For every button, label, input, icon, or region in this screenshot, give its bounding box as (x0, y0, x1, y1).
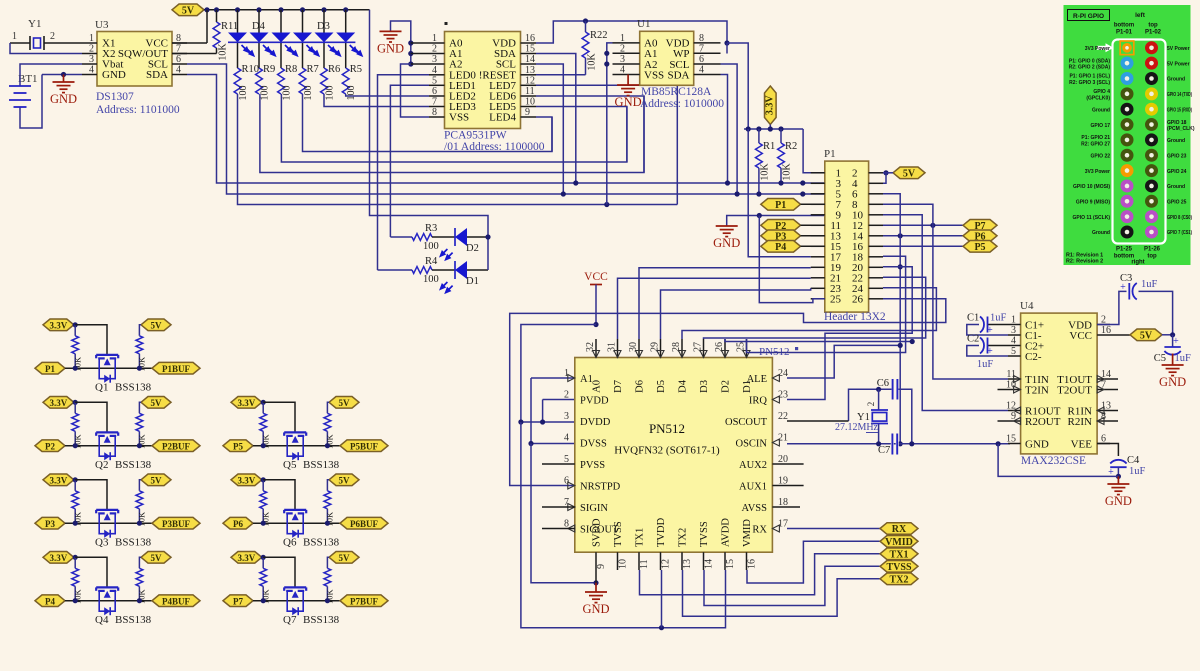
svg-text:BSS138: BSS138 (303, 537, 340, 549)
LED group D4 (3x blue) and D3 (3x blue) (228, 7, 362, 68)
resistor Q7 drain pull-up 10K (324, 557, 335, 604)
svg-text:GPIO 14 (TXD): GPIO 14 (TXD) (1167, 92, 1192, 98)
gpio row 3 (1069, 72, 1185, 86)
net tag P4 (header pin 15) (761, 241, 825, 253)
svg-text:AUX2: AUX2 (739, 460, 767, 471)
IC PCA9531PW LED dimmer (411, 22, 545, 153)
wire I2C SDA bus (U3 pin4 to header pin3) (187, 75, 825, 184)
svg-text:8: 8 (699, 33, 704, 44)
svg-text:1: 1 (89, 33, 94, 44)
wire D1/D2 anode rail to 5V (370, 10, 491, 270)
svg-text:GPIO 15 (RXD): GPIO 15 (RXD) (1167, 107, 1192, 113)
svg-text:26: 26 (852, 293, 864, 305)
svg-text:2: 2 (866, 402, 876, 407)
svg-text:1uF: 1uF (1129, 466, 1146, 477)
svg-text:P5: P5 (233, 441, 243, 451)
gpio row 11 (1076, 195, 1187, 208)
net tag P4 (35, 595, 65, 607)
wire ALE riser (787, 343, 903, 378)
svg-text:12: 12 (661, 559, 672, 569)
svg-text:11: 11 (525, 86, 535, 97)
svg-text:VEE: VEE (1071, 438, 1093, 450)
wire LED6 net (pin11 to R9 row) (536, 96, 644, 173)
svg-text:3: 3 (564, 411, 569, 422)
svg-text:5V: 5V (151, 553, 163, 563)
svg-text:5V: 5V (339, 553, 351, 563)
power tag 3.3V (Q2) (43, 397, 74, 409)
svg-text:GPIO 18: GPIO 18 (1167, 120, 1187, 126)
svg-text:P4BUF: P4BUF (162, 596, 191, 606)
svg-text:R8: R8 (285, 64, 297, 75)
svg-text:GND: GND (615, 95, 642, 109)
net tag TX1 (880, 548, 918, 560)
svg-text:14: 14 (704, 559, 715, 569)
wire NRSTPD to header pin 26 (510, 299, 946, 486)
IC PN512 NFC controller (564, 339, 798, 570)
svg-text:GPIO 11 (SCLK): GPIO 11 (SCLK) (1072, 215, 1110, 221)
svg-text:Address: 1010000: Address: 1010000 (640, 98, 724, 110)
svg-text:5V: 5V (903, 168, 916, 179)
resistor R1 10K (SCL pull-up) (756, 129, 776, 197)
svg-text:VSS: VSS (644, 69, 664, 81)
svg-text:GPIO 10 (MOSI): GPIO 10 (MOSI) (1073, 184, 1110, 190)
svg-text:2: 2 (432, 44, 437, 55)
svg-text:C4: C4 (1127, 455, 1140, 466)
IC U4 MAX232CSE (998, 300, 1119, 467)
wire D1 to header pin 18 (747, 256, 906, 352)
svg-text:SIGIN: SIGIN (580, 503, 608, 514)
net tag VMID (880, 536, 918, 548)
wire D4 to header pin 24 (682, 288, 936, 339)
svg-text:D2: D2 (721, 380, 732, 393)
svg-text:R2: GPIO 3 (SCL): R2: GPIO 3 (SCL) (1069, 80, 1110, 86)
gpio row 8 (1091, 149, 1187, 162)
svg-text:PN512: PN512 (649, 421, 685, 436)
svg-text:5V: 5V (151, 475, 163, 485)
svg-text:Q2: Q2 (95, 459, 108, 471)
svg-text:GPIO 24: GPIO 24 (1167, 169, 1187, 175)
svg-text:13: 13 (682, 559, 693, 569)
wire LED7 net (pin12 to R10 row) (536, 85, 677, 204)
svg-text:Ground: Ground (1167, 184, 1185, 190)
net tag TX2 (880, 573, 918, 585)
svg-text:14: 14 (525, 54, 535, 65)
svg-text:3.3V: 3.3V (238, 475, 256, 485)
gpio row 10 (1073, 179, 1185, 192)
capacitor C1 1uF (967, 313, 1008, 337)
svg-text:D4: D4 (678, 379, 689, 393)
LED D1 (432, 261, 488, 293)
svg-text:DS1307: DS1307 (96, 91, 134, 103)
wire D7 to header pin 21 (618, 278, 811, 339)
svg-text:TX1: TX1 (635, 528, 646, 547)
wire D5 to header pin 23 (661, 288, 811, 339)
svg-text:GPIO 8 (CS0): GPIO 8 (CS0) (1167, 215, 1192, 221)
svg-text:AUX1: AUX1 (739, 481, 767, 492)
resistor R11 10K (SQW pull-up) (172, 7, 238, 60)
svg-text:5: 5 (432, 75, 437, 86)
wire LED1 net (pin5 to R3) (390, 85, 429, 237)
net tag P5 (223, 440, 253, 452)
power tag 5V (Q2) (141, 397, 171, 409)
svg-text:LED4: LED4 (489, 112, 516, 124)
svg-text:3.3V: 3.3V (50, 475, 68, 485)
transistor Q1 BSS138 (65, 355, 152, 394)
svg-text:R2OUT: R2OUT (1025, 416, 1061, 428)
svg-text:P1: P1 (824, 148, 836, 160)
svg-text:11: 11 (1006, 369, 1016, 380)
net tag P1 (header pin 7) (761, 199, 825, 211)
svg-text:IRQ: IRQ (749, 395, 768, 406)
svg-text:AVSS: AVSS (742, 503, 768, 514)
svg-text:right: right (1131, 260, 1144, 266)
resistor Q5 drain pull-up 10K (324, 402, 335, 449)
svg-text:TX1: TX1 (890, 549, 909, 560)
wire LED nets staircase (R5..R10 to PCA9531) (238, 94, 678, 207)
svg-text:P6: P6 (233, 519, 243, 529)
svg-text:D6: D6 (635, 380, 646, 393)
gpio row 2 (1069, 57, 1190, 71)
svg-text:TVDD: TVDD (656, 517, 667, 547)
wire gate (Q4) (75, 557, 107, 587)
power tag 5V (Q4) (141, 552, 171, 564)
svg-text:3V3 Power: 3V3 Power (1085, 46, 1110, 52)
svg-text:100: 100 (260, 86, 271, 101)
svg-text:Q5: Q5 (283, 459, 297, 471)
svg-text:(GPCLK0): (GPCLK0) (1086, 95, 1110, 101)
svg-text:GPIO 23: GPIO 23 (1167, 153, 1187, 159)
svg-text:10: 10 (618, 559, 629, 569)
transistor Q6 BSS138 (253, 510, 340, 549)
wire VSS to gnd bus (401, 64, 430, 117)
svg-text:P5BUF: P5BUF (350, 441, 379, 451)
svg-text:R6: R6 (328, 64, 340, 75)
svg-text:PVSS: PVSS (580, 460, 605, 471)
wire gate (Q7) (263, 557, 295, 587)
svg-text:1: 1 (432, 33, 437, 44)
svg-text:D2: D2 (466, 243, 479, 254)
net tag P6BUF (325, 517, 388, 529)
svg-text:R2: Revision 2: R2: Revision 2 (1066, 259, 1103, 265)
power tag 5V (Q6) (329, 474, 359, 486)
wire VMID net (747, 541, 880, 583)
svg-text:R4: R4 (425, 256, 438, 267)
svg-text:NRSTPD: NRSTPD (580, 481, 621, 492)
svg-text:AVDD: AVDD (721, 518, 732, 547)
net tag P7BUF (325, 595, 388, 607)
resistor Q4 gate pull-up 10K (72, 555, 83, 604)
svg-text:1uF: 1uF (990, 313, 1007, 324)
svg-text:Ground: Ground (1092, 107, 1110, 113)
svg-text:TVSS: TVSS (613, 521, 624, 547)
resistor Q6 gate pull-up 10K (260, 477, 271, 526)
svg-text:1: 1 (12, 31, 17, 42)
svg-text:100: 100 (238, 86, 249, 101)
net tag P5 (header pin 16) (883, 241, 997, 253)
wire header pin10 RXD drop (883, 215, 1008, 411)
power tag 5V (MAX232 VCC) (1110, 329, 1175, 341)
svg-text:BSS138: BSS138 (115, 614, 152, 626)
svg-text:7: 7 (432, 97, 437, 108)
svg-text:10K: 10K (760, 163, 771, 181)
power tag 3.3V (Q4) (43, 552, 74, 564)
svg-text:4: 4 (176, 65, 181, 76)
svg-text:9: 9 (525, 107, 530, 118)
svg-text:100: 100 (303, 86, 314, 101)
svg-text:R5: R5 (350, 64, 362, 75)
gpio row 4 (1086, 87, 1192, 101)
svg-text:R-PI GPIO: R-PI GPIO (1073, 13, 1104, 20)
power tag 5V (header pins 2/4) (883, 167, 925, 183)
svg-text:P4: P4 (45, 596, 55, 606)
svg-text:4: 4 (699, 65, 704, 76)
svg-text:GND: GND (713, 236, 740, 250)
svg-text:13: 13 (1101, 401, 1111, 412)
svg-text:P1-02: P1-02 (1145, 30, 1162, 36)
svg-text:12: 12 (525, 75, 535, 86)
svg-text:R2: GPIO 27: R2: GPIO 27 (1081, 141, 1110, 147)
svg-text:11: 11 (639, 559, 650, 569)
wire U1 address pins gnd bus (604, 43, 612, 205)
svg-text:GND: GND (582, 602, 609, 616)
resistor R4 100 (D1 series) (378, 256, 439, 285)
wire LED5 net (pin10 to R8 row) (536, 107, 627, 163)
svg-text:10K: 10K (218, 43, 229, 61)
resistor Q2 gate pull-up 10K (72, 400, 83, 449)
svg-text:C5: C5 (1154, 353, 1166, 364)
svg-text:7: 7 (699, 43, 704, 54)
resistor Q1 gate pull-up 10K (72, 322, 83, 371)
svg-text:P1-25: P1-25 (1116, 247, 1133, 253)
svg-text:10K: 10K (782, 163, 793, 181)
net tag P5BUF (325, 440, 388, 452)
power tag 3.3V (Q7) (231, 552, 262, 564)
svg-text:C2-: C2- (1025, 351, 1042, 363)
svg-text:TVSS: TVSS (699, 521, 710, 547)
svg-text:SVDD: SVDD (592, 518, 603, 547)
svg-text:2: 2 (620, 43, 625, 54)
svg-text:BSS138: BSS138 (115, 382, 152, 394)
svg-text:5V Power: 5V Power (1167, 46, 1190, 52)
IC U3 DS1307 RTC (82, 19, 187, 116)
svg-text:P1-26: P1-26 (1144, 247, 1161, 253)
ground (PN512 SVDD/DVSS) (531, 444, 610, 617)
svg-text:P6BUF: P6BUF (350, 519, 379, 529)
transistor Q2 BSS138 (65, 432, 152, 471)
svg-text:6: 6 (699, 54, 704, 65)
svg-text:D5: D5 (656, 380, 667, 393)
gpio row 7 (1081, 133, 1185, 147)
svg-text:P1: P1 (775, 200, 786, 211)
svg-text:1uF: 1uF (1141, 279, 1158, 290)
svg-text:100: 100 (346, 86, 357, 101)
transistor Q5 BSS138 (253, 432, 340, 471)
svg-text:U1: U1 (637, 18, 650, 30)
svg-text:9: 9 (596, 564, 607, 569)
net tag P2 (header pin 11) (761, 220, 825, 232)
svg-text:Q3: Q3 (95, 537, 109, 549)
R-Pi GPIO reference card (1064, 5, 1195, 266)
wire I2C SCL bus (U3 pin6 to header pin5) (187, 64, 825, 194)
ground (header pin 9) (713, 213, 825, 250)
svg-text:6: 6 (432, 86, 437, 97)
power tag 3.3V (Q6) (231, 474, 262, 486)
wire D3 to header pin 22 (704, 277, 926, 339)
gpio row 13 (1092, 226, 1192, 239)
net tag P4BUF (137, 595, 200, 607)
svg-text:3: 3 (1011, 325, 1016, 336)
net tag P7 (223, 595, 253, 607)
net tag TVSS (880, 561, 918, 573)
svg-text:Address: 1101000: Address: 1101000 (96, 104, 180, 116)
resistor Q3 gate pull-up 10K (72, 477, 83, 526)
svg-text:16: 16 (525, 33, 535, 44)
svg-text:R22: R22 (590, 30, 608, 41)
svg-text:2: 2 (564, 390, 569, 401)
svg-text:3.3V: 3.3V (50, 398, 68, 408)
svg-text:P3: P3 (45, 519, 55, 529)
resistor R22 10K (!RESET pull-up) (536, 21, 608, 75)
wire 3.3V to header pin 17 (748, 129, 811, 257)
connector P1 Header 13X2 (811, 148, 886, 323)
svg-text:25: 25 (830, 293, 842, 305)
net tag RX (880, 523, 918, 535)
wire PCA9531 SDA drop (536, 54, 578, 186)
ground (C4/U4) (1105, 476, 1132, 508)
svg-text:GND: GND (1159, 375, 1186, 389)
transistor Q4 BSS138 (65, 587, 152, 626)
svg-text:5V Power: 5V Power (1167, 61, 1190, 67)
svg-text:BSS138: BSS138 (115, 537, 152, 549)
svg-text:R7: R7 (307, 64, 319, 75)
wire header pin6 gnd drop (883, 194, 903, 447)
resistor R2 10K (SDA pull-up) (778, 129, 798, 186)
svg-text:1: 1 (620, 33, 625, 44)
wire SIGIN stub (542, 506, 575, 508)
svg-text:4: 4 (564, 433, 569, 444)
svg-text:TX2: TX2 (678, 528, 689, 547)
net tag P6 (header pin 14) (883, 230, 997, 242)
wire PCA9531 SCL drop (536, 64, 566, 197)
svg-text:13: 13 (525, 65, 535, 76)
resistor R3 100 (D2 series) (390, 223, 438, 252)
svg-text:5V: 5V (182, 5, 195, 16)
svg-text:/01 Address: 1100000: /01 Address: 1100000 (444, 141, 545, 153)
capacitor C6 (787, 378, 912, 444)
svg-text:2: 2 (89, 44, 94, 55)
svg-text:3: 3 (89, 54, 94, 65)
svg-text:GND: GND (1105, 494, 1132, 508)
svg-text:3.3V: 3.3V (238, 398, 256, 408)
svg-text:3: 3 (620, 54, 625, 65)
wire TX2 net (683, 570, 881, 616)
net tag P3 (35, 517, 65, 529)
svg-text:bottom: bottom (1114, 23, 1134, 29)
svg-text:BSS138: BSS138 (303, 614, 340, 626)
svg-text:Y1: Y1 (28, 18, 41, 30)
svg-text:TVSS: TVSS (886, 562, 911, 573)
gpio row 9 (1085, 164, 1187, 177)
svg-text:10K: 10K (587, 53, 598, 71)
svg-text:15: 15 (525, 44, 535, 55)
wire IRQ to header pin 20 (787, 267, 912, 400)
svg-text:MB85RC128A: MB85RC128A (641, 86, 712, 98)
power tag 5V (Q1) (141, 319, 171, 331)
svg-text:D1: D1 (466, 276, 479, 287)
svg-text:A0: A0 (592, 380, 603, 393)
wire AUX2 stub (772, 463, 803, 465)
svg-text:MAX232CSE: MAX232CSE (1021, 455, 1086, 467)
svg-text:HVQFN32 (SOT617-1): HVQFN32 (SOT617-1) (614, 445, 720, 457)
svg-text:+: + (987, 325, 993, 336)
svg-text:T2OUT: T2OUT (1057, 384, 1092, 396)
gpio row 12 (1072, 210, 1192, 223)
svg-text:VMID: VMID (885, 537, 913, 548)
net tag P2 (35, 440, 65, 452)
svg-text:5V: 5V (151, 320, 163, 330)
svg-text:16: 16 (1101, 325, 1111, 336)
power tag 3.3V (I2C rail) (765, 86, 777, 129)
ground (PCA9531 address pins) (377, 21, 413, 67)
svg-text:BT1: BT1 (18, 73, 38, 85)
svg-text:R1: R1 (763, 141, 775, 152)
svg-text:P2: P2 (45, 441, 55, 451)
svg-text:100: 100 (282, 86, 293, 101)
svg-text:T2IN: T2IN (1025, 384, 1049, 396)
wire U1 SCL drop (721, 64, 740, 197)
svg-text:GND: GND (50, 92, 77, 106)
wire gate (Q3) (75, 480, 107, 510)
svg-text:1uF: 1uF (1175, 353, 1192, 364)
svg-text:top: top (1147, 254, 1157, 260)
wire LED0 net (pin4 to R4) (378, 75, 430, 270)
resistor Q3 drain pull-up 10K (136, 480, 147, 527)
svg-text:DVDD: DVDD (580, 417, 611, 428)
svg-text:R9: R9 (263, 64, 275, 75)
capacitor C4 1uF (VEE) (1097, 444, 1145, 480)
crystal Y1 27.12MHz (835, 389, 888, 444)
svg-text:P2BUF: P2BUF (162, 441, 191, 451)
svg-text:4: 4 (620, 65, 625, 76)
svg-text:100: 100 (325, 86, 336, 101)
wire gate (Q5) (263, 402, 295, 432)
wire TVDD/AVDD rail to VCC column (521, 422, 726, 630)
svg-text:3.3V: 3.3V (50, 553, 68, 563)
svg-text:P1BUF: P1BUF (162, 364, 191, 374)
svg-text:D7: D7 (613, 380, 624, 393)
svg-text:3.3V: 3.3V (765, 95, 776, 116)
ground (U1 VSS) (615, 75, 642, 110)
capacitor C3 1uF (VDD) (1097, 273, 1173, 335)
svg-text:P5: P5 (974, 242, 985, 253)
wire gnd to header pin 25 (759, 216, 825, 303)
svg-text:R11: R11 (221, 21, 238, 32)
IC U1 MB85RC128A FRAM (613, 18, 725, 110)
svg-text:SDA: SDA (667, 69, 689, 81)
svg-text:R2IN: R2IN (1068, 416, 1093, 428)
svg-text:5V: 5V (339, 398, 351, 408)
resistor Q6 drain pull-up 10K (324, 480, 335, 527)
svg-text:D3: D3 (699, 380, 710, 393)
power tag 3.3V (Q3) (43, 474, 74, 486)
transistor Q3 BSS138 (65, 510, 152, 549)
wire SIGOUT stub (542, 528, 575, 530)
svg-text:RX: RX (752, 524, 767, 535)
svg-text:BSS138: BSS138 (303, 459, 340, 471)
net tag P7 (header pin 12) (883, 220, 997, 232)
svg-text:VCC: VCC (1069, 330, 1092, 342)
svg-text:C1: C1 (967, 313, 979, 324)
